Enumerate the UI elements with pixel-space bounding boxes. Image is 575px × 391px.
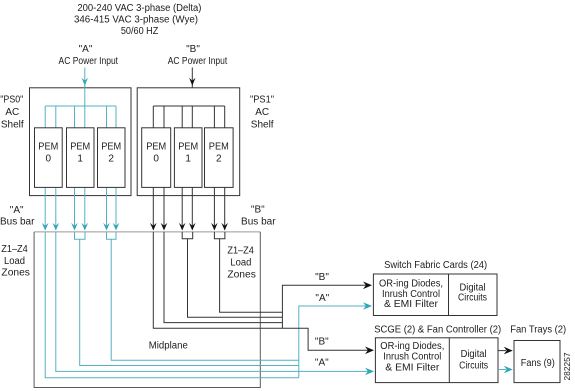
label: "B" AC Power Input: [168, 44, 228, 67]
svg-text:1: 1: [185, 154, 191, 165]
svg-text:"A": "A": [315, 293, 329, 304]
wire: A input feed: [84, 68, 86, 107]
wire: PS0 PEM drop lines: [45, 106, 116, 230]
SCGE box: [375, 338, 498, 383]
wire: B zone 1b descender: [164, 232, 282, 323]
svg-text:2: 2: [108, 154, 114, 165]
svg-text:SCGE (2) & Fan Controller (2): SCGE (2) & Fan Controller (2): [374, 325, 501, 336]
svg-text:Load: Load: [230, 258, 251, 269]
wire: B riser to switch fabric: [282, 285, 370, 328]
svg-text:200-240 VAC 3-phase (Delta): 200-240 VAC 3-phase (Delta): [77, 3, 201, 14]
svg-text:AC Power Input: AC Power Input: [59, 56, 119, 67]
arrowheads: PS1 outputs into B bus bar (black, down): [150, 223, 228, 231]
shelf PS1 box: [137, 88, 240, 196]
connector notch: A zone 3: [107, 232, 117, 239]
wire: PS1 PEM drop lines: [153, 106, 224, 230]
svg-text:282257: 282257: [563, 352, 572, 381]
arrowhead: B input (black, down): [189, 78, 195, 86]
svg-text:PEM: PEM: [70, 142, 90, 153]
arrowhead: A input (cyan, down): [82, 78, 88, 86]
label: "B" Bus bar: [241, 204, 276, 227]
wire: SCGE to fans (A): [498, 369, 506, 371]
connector notch: B zone 3: [214, 232, 225, 239]
arrowheads: PS0 outputs into A bus bar (cyan, down): [42, 223, 119, 231]
svg-text:PEM: PEM: [146, 142, 166, 153]
label: Z1-Z4 Load Zones (left): [1, 244, 30, 279]
svg-text:AC: AC: [255, 107, 269, 118]
svg-text:Shelf: Shelf: [1, 119, 24, 130]
connector notch: B zone 2: [182, 232, 193, 239]
arrowhead: B into SCGE (black, right): [365, 347, 374, 355]
svg-text:0: 0: [153, 154, 159, 165]
label: switch fabric digital circuits: [458, 283, 487, 304]
wire: A zone 2 descender: [80, 239, 299, 365]
bus bar line (A and B, gray): [34, 231, 260, 233]
wire: B zone 1a descender: [153, 232, 370, 350]
svg-text:Midplane: Midplane: [149, 340, 188, 351]
label: "A" AC Power Input: [59, 44, 119, 67]
svg-text:0: 0: [46, 154, 52, 165]
arrowhead: A into switch fabric (cyan, right): [363, 302, 372, 310]
svg-text:1: 1: [77, 154, 83, 165]
wire: A zone 3 descender: [111, 239, 299, 360]
svg-text:"A": "A": [79, 44, 93, 55]
SCGE divider: [448, 338, 450, 383]
wire: SCGE to fans (B): [498, 350, 506, 352]
svg-text:Zones: Zones: [1, 268, 30, 279]
svg-text:346-415 VAC 3-phase (Wye): 346-415 VAC 3-phase (Wye): [74, 14, 198, 25]
svg-text:Z1–Z4: Z1–Z4: [1, 244, 28, 255]
svg-text:"PS1": "PS1": [250, 95, 274, 106]
svg-text:"B": "B": [315, 272, 329, 283]
midplane box: [34, 232, 260, 388]
PEM 0 (PS1): [142, 128, 171, 188]
svg-text:PEM: PEM: [209, 142, 229, 153]
svg-text:Load: Load: [4, 256, 25, 267]
svg-text:AC Power Input: AC Power Input: [168, 56, 228, 67]
svg-text:"B": "B": [315, 337, 329, 348]
svg-text:AC: AC: [5, 107, 19, 118]
svg-text:Fans (9): Fans (9): [521, 358, 555, 369]
wire: B zone 3 descender: [220, 239, 283, 313]
label: PS1 AC Shelf: [250, 95, 274, 131]
svg-text:& EMI Filter: & EMI Filter: [384, 299, 439, 310]
label: switch fabric OR-ing block: [379, 279, 443, 311]
PEM 0 (PS0): [35, 128, 63, 188]
svg-text:Z1–Z4: Z1–Z4: [227, 245, 254, 256]
svg-text:PEM: PEM: [178, 142, 198, 153]
svg-text:Bus bar: Bus bar: [0, 217, 35, 228]
arrowhead: SCGE to fans (cyan, right): [504, 366, 513, 374]
svg-text:2: 2: [216, 154, 222, 165]
switch fabric divider: [448, 274, 450, 316]
svg-text:"B": "B": [186, 44, 200, 55]
label: PS0 AC Shelf: [0, 95, 24, 131]
label: Z1-Z4 Load Zones (right): [227, 245, 256, 280]
svg-text:Switch Fabric Cards (24): Switch Fabric Cards (24): [384, 260, 487, 271]
svg-text:PEM: PEM: [38, 142, 58, 153]
svg-text:Fan Trays (2): Fan Trays (2): [510, 325, 566, 336]
PEM 2 (PS0): [98, 128, 126, 188]
svg-text:Digital: Digital: [461, 349, 487, 360]
label: AC input voltage ratings: [74, 3, 201, 37]
svg-text:50/60 HZ: 50/60 HZ: [121, 26, 159, 37]
wire: A zone 1b descender: [56, 232, 370, 372]
wire: A riser to switch fabric: [299, 306, 370, 378]
svg-text:Shelf: Shelf: [251, 119, 274, 130]
svg-text:"A": "A": [315, 358, 329, 369]
wire: A branch bus inside PS0: [45, 105, 116, 107]
label: SCGE digital circuits: [459, 349, 488, 372]
label: SCGE OR-ing block: [380, 341, 444, 373]
svg-text:PEM: PEM: [101, 142, 121, 153]
svg-text:Inrush Control: Inrush Control: [383, 352, 441, 363]
svg-text:OR-ing Diodes,: OR-ing Diodes,: [380, 341, 444, 352]
switch fabric card box: [373, 274, 497, 316]
fan trays box: [514, 341, 560, 383]
arrowhead: SCGE to fans (black, right): [504, 347, 513, 355]
connector notch: A zone 2: [75, 232, 86, 239]
shelf PS0 box: [30, 88, 132, 196]
arrowhead: A into SCGE (cyan, right): [365, 368, 374, 376]
wire: B zone 2 descender: [188, 239, 283, 318]
wire: B input feed: [191, 68, 193, 107]
wire: B branch bus inside PS1: [153, 105, 224, 107]
arrowhead: B into switch fabric (black, right): [363, 282, 372, 290]
PEM 1 (PS1): [174, 128, 202, 188]
svg-text:Zones: Zones: [227, 270, 256, 281]
svg-text:"B": "B": [251, 204, 265, 215]
svg-text:"PS0": "PS0": [0, 95, 23, 106]
svg-text:"A": "A": [10, 205, 24, 216]
svg-text:Circuits: Circuits: [458, 293, 487, 304]
svg-text:Circuits: Circuits: [459, 360, 488, 371]
wire: A zone 1a descender: [45, 232, 299, 378]
wire: A input continues into shelf: [84, 86, 86, 106]
label: "A" Bus bar: [0, 205, 35, 228]
PEM 1 (PS0): [67, 128, 95, 188]
svg-text:Bus bar: Bus bar: [241, 216, 276, 227]
PEM 2 (PS1): [205, 128, 234, 188]
svg-text:& EMI Filter: & EMI Filter: [385, 362, 440, 373]
